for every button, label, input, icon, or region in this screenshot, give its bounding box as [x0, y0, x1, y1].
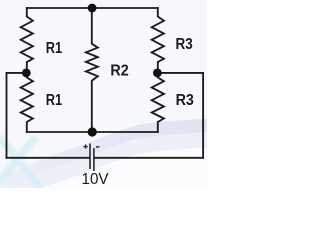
decorative ribbon inner highlight: [0, 132, 212, 196]
battery V1 plates: [90, 144, 94, 172]
wire right dot to outer right: [158, 73, 203, 158]
wire inner bottom rail: [27, 131, 158, 133]
node dot right middle: [153, 69, 162, 78]
svg-text:R2: R2: [110, 62, 128, 79]
resistor R3 (top right): [152, 8, 164, 73]
resistor R1 (top left): [21, 8, 33, 73]
wire top rail: [27, 7, 158, 9]
svg-text:R3: R3: [176, 92, 194, 109]
wire left dot to outer left: [7, 73, 27, 158]
wire bottom rail left of battery: [7, 157, 90, 159]
wire bottom rail right of battery: [95, 157, 204, 159]
node dot left middle: [22, 69, 31, 78]
battery plus sign: [84, 145, 88, 149]
svg-text:R3: R3: [176, 36, 193, 53]
decorative ribbon lower white: [10, 148, 212, 200]
battery minus sign: [96, 146, 100, 148]
resistor R3 (bottom right): [152, 73, 164, 132]
node dot bottom: [88, 127, 97, 136]
resistor R2 (middle): [86, 8, 98, 132]
svg-text:R1: R1: [46, 40, 62, 57]
resistor R1 (bottom left): [21, 73, 33, 132]
svg-text:10V: 10V: [82, 171, 109, 188]
svg-text:R1: R1: [46, 92, 62, 109]
node dot top: [88, 4, 97, 13]
